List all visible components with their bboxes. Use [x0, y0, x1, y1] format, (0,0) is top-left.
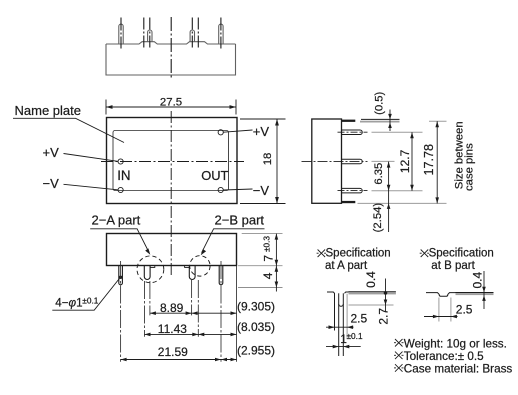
B ext 2.5 right gray: [450, 298, 452, 322]
B texts: [429, 248, 494, 317]
arrows 12.7: [410, 132, 414, 138]
svg-text:Tolerance:± 0.5: Tolerance:± 0.5: [404, 350, 484, 363]
case top edge with plateaus: [106, 42, 236, 44]
dim line 17.78: [436, 121, 438, 203]
ext pin1 centerline: [120, 261, 122, 362]
kome notes: [394, 339, 404, 372]
A texts: [325, 248, 391, 347]
case outline top view: [106, 44, 236, 75]
arrows 9.305: [192, 311, 198, 315]
svg-text:2−B part: 2−B part: [215, 212, 265, 227]
svg-text:−V: −V: [253, 183, 270, 198]
vertical centerline main view: [170, 111, 172, 276]
svg-text:Case material: Brass: Case material: Brass: [404, 363, 513, 376]
+V right leader: [224, 130, 253, 132]
svg-text:(8.035): (8.035): [237, 320, 275, 334]
A pin bend arc: [339, 304, 344, 306]
top case tab: [342, 120, 356, 122]
A dim 2.5 line: [326, 326, 354, 328]
svg-text:12.7: 12.7: [398, 149, 412, 173]
B case section with notch: [426, 293, 456, 297]
-V right leader: [224, 189, 253, 190]
arrows 8.035: [198, 333, 204, 337]
side pin row1: [342, 130, 363, 135]
svg-text:6.35: 6.35: [373, 163, 385, 185]
name plate leader: [13, 118, 124, 142]
B dim 2.5 line: [424, 316, 458, 318]
case outline main view: [107, 118, 238, 204]
B arrows 0.4: [482, 287, 486, 293]
svg-text:Specification: Specification: [429, 248, 494, 260]
svg-text:Specification: Specification: [326, 248, 391, 260]
horizontal centerline main view: [101, 161, 244, 163]
svg-text:8.89: 8.89: [160, 301, 184, 315]
pin centerline inner left A: [143, 18, 145, 49]
svg-text:2−A part: 2−A part: [92, 212, 141, 227]
svg-text:Weight: 10g or less.: Weight: 10g or less.: [404, 337, 507, 350]
dim line 11.43 / (8.035): [145, 333, 237, 335]
dim 27.5 extension left: [105, 100, 107, 115]
ext bottom right 4: [238, 287, 283, 289]
B flange gray bar: [456, 293, 494, 295]
arrow 27.5 left: [106, 105, 113, 109]
A dim dot: [384, 291, 388, 295]
ext 8.89 right: [191, 280, 193, 315]
B arrows 2.5: [433, 315, 439, 319]
arrows 11.43: [145, 333, 151, 337]
svg-text:21.59: 21.59: [158, 345, 188, 359]
ext row2: [372, 160, 395, 162]
A pin right line: [342, 293, 344, 356]
ext 17.78 top: [429, 120, 447, 122]
ext 8.89 left: [149, 281, 151, 315]
pin centerline inner right A: [191, 18, 193, 49]
svg-text:18: 18: [262, 153, 274, 166]
arrow 27.5 right: [230, 105, 237, 109]
dim 27.5 line: [106, 106, 236, 108]
svg-text:−V: −V: [43, 176, 60, 191]
ext top right 7: [242, 233, 283, 235]
pin centerline outer right: [220, 18, 222, 49]
svg-text:+V: +V: [43, 145, 60, 160]
dim 18 line: [276, 119, 278, 204]
name plate outline: [113, 131, 229, 191]
ext case right edge down: [236, 266, 238, 362]
pin centerline inner left B: [149, 18, 151, 49]
dim line 8.89 / (9.305): [150, 312, 237, 314]
arrows 2.955: [221, 358, 227, 362]
svg-text:IN: IN: [117, 168, 130, 183]
svg-text:(2.54): (2.54): [372, 203, 384, 233]
texts main view: [15, 97, 275, 228]
dim line (0.5): [389, 110, 391, 132]
pin B inner right front: [189, 266, 195, 280]
kome A header: [317, 250, 327, 258]
B flange top line: [456, 292, 494, 294]
arrow 2.54: [387, 203, 391, 209]
A arrow 2.7: [384, 300, 388, 306]
arrows 0.5: [388, 114, 392, 120]
vertical center line top view: [170, 17, 172, 80]
dim 27.5 extension right: [235, 100, 237, 115]
svg-text:0.4: 0.4: [364, 271, 378, 288]
B dim 0.4 vertical: [483, 271, 485, 309]
svg-text:OUT: OUT: [201, 168, 228, 183]
svg-text:17.78: 17.78: [422, 144, 436, 176]
svg-text:±0.3: ±0.3: [262, 236, 272, 252]
ext pin4 centerline: [220, 261, 222, 362]
pin A inner left front: [144, 266, 150, 280]
svg-text:Name plate: Name plate: [15, 103, 81, 118]
arrows side view: [387, 114, 439, 209]
2-B part leader: [202, 229, 265, 253]
pin circle mid-left: [118, 159, 123, 164]
A arrows 2.5: [329, 325, 335, 329]
leader 4-phi1: [52, 279, 119, 311]
arrow 18 top: [275, 119, 279, 126]
dot on pin1: [119, 276, 122, 279]
A ext 2.7 gray: [349, 304, 394, 306]
ext 11.43 right: [197, 280, 199, 337]
ext row3: [372, 190, 423, 192]
case h centerline + row2: [302, 160, 368, 162]
detail circle B part: [190, 256, 210, 276]
svg-text:(9.305): (9.305): [237, 299, 275, 313]
pin centerline inner right B: [197, 18, 199, 49]
svg-text:±0.1: ±0.1: [82, 295, 98, 305]
pin 1 outer left front: [119, 266, 123, 285]
A case section left: [327, 292, 335, 331]
texts side view: [372, 91, 476, 232]
svg-text:case pins: case pins: [464, 143, 476, 191]
A dim 0.4/2.7 vertical: [385, 279, 387, 312]
dim 18 extension bottom: [240, 203, 286, 205]
arrows 21.59: [121, 358, 127, 362]
svg-text:2.7: 2.7: [376, 308, 390, 325]
kome tolerance: [395, 352, 403, 360]
pin row1 centerline: [338, 131, 368, 133]
A pin left line: [338, 293, 340, 356]
dim 18 extension top: [240, 118, 286, 120]
pin 4 outer right front: [219, 266, 223, 285]
ext case bottom: [358, 202, 447, 204]
A arrows 1: [333, 345, 339, 349]
kome B header: [420, 250, 430, 258]
svg-text:11.43: 11.43: [158, 322, 187, 336]
pin A step: [150, 266, 155, 268]
svg-text:(0.5): (0.5): [374, 91, 386, 114]
dim line 21.59 / (2.955): [121, 359, 237, 361]
case outline front view: [107, 234, 237, 266]
flange gray bar side view: [360, 121, 400, 123]
arrows 8.89: [150, 311, 156, 315]
texts front view: [55, 236, 275, 359]
arrows 6.35: [387, 162, 391, 168]
gray extension rows side view: [358, 121, 447, 203]
svg-text:7: 7: [262, 255, 276, 262]
inner pin left: [148, 30, 152, 42]
A wall right gray: [346, 294, 348, 338]
A flange top line: [349, 291, 396, 293]
arrows 7: [275, 234, 279, 240]
dim verticals side view: [389, 110, 438, 233]
dim line 7 and 4: [275, 234, 277, 292]
pin centerline outer left: [120, 18, 122, 49]
arrow 2-A part: [145, 248, 150, 254]
A case section right chamfer: [345, 292, 349, 293]
pin circle bottom-right: [218, 187, 223, 192]
flange edge line top: [361, 118, 400, 120]
pin row3 centerline: [338, 190, 368, 192]
side pin row2: [342, 159, 363, 164]
arrows front dims: [121, 234, 279, 362]
pin circle bottom-left: [118, 187, 123, 192]
arrows 17.78: [435, 121, 439, 127]
+V left leader: [64, 154, 118, 162]
svg-text:±0.1: ±0.1: [347, 331, 363, 341]
A dim 1 line: [326, 346, 361, 348]
side pin row3: [342, 188, 363, 193]
dim line 6.35/(2.54): [388, 162, 390, 232]
svg-text:2.5: 2.5: [351, 311, 368, 325]
case outline side view: [312, 119, 342, 203]
bottom case tab: [342, 201, 356, 203]
ext 11.43 left: [144, 281, 146, 337]
inner pin right: [190, 30, 194, 42]
dimension rows front view: [121, 234, 283, 360]
detail circle A part: [137, 256, 164, 283]
svg-text:at B part: at B part: [431, 260, 475, 272]
outer pin left: [119, 24, 123, 44]
B ext 2.5 left gray: [438, 298, 440, 322]
pin B step: [185, 266, 190, 268]
svg-text:4: 4: [261, 272, 275, 279]
svg-text:0.4: 0.4: [471, 272, 485, 289]
A flange gray bar: [349, 293, 396, 295]
pin circle top-right: [218, 130, 223, 135]
extension lines front view: [121, 261, 237, 362]
arrows main view: [106, 105, 279, 255]
svg-text:4−φ1: 4−φ1: [55, 296, 82, 309]
ext mid right 7/4: [238, 265, 283, 267]
svg-text:+V: +V: [253, 124, 270, 139]
2-A part leader: [90, 229, 149, 252]
svg-text:27.5: 27.5: [160, 97, 182, 109]
arrows 4: [275, 266, 279, 272]
svg-text:2.5: 2.5: [456, 303, 473, 317]
kome weight: [395, 339, 403, 347]
-V left leader: [64, 184, 118, 190]
svg-text:at A part: at A part: [325, 260, 368, 272]
arrow 2-B part: [201, 249, 206, 255]
kome material: [395, 364, 403, 372]
arrow 18 bottom: [275, 197, 279, 204]
outer pin right: [219, 24, 223, 44]
ext row1: [372, 131, 423, 133]
svg-text:(2.955): (2.955): [237, 343, 275, 357]
dim line 12.7: [411, 132, 413, 191]
